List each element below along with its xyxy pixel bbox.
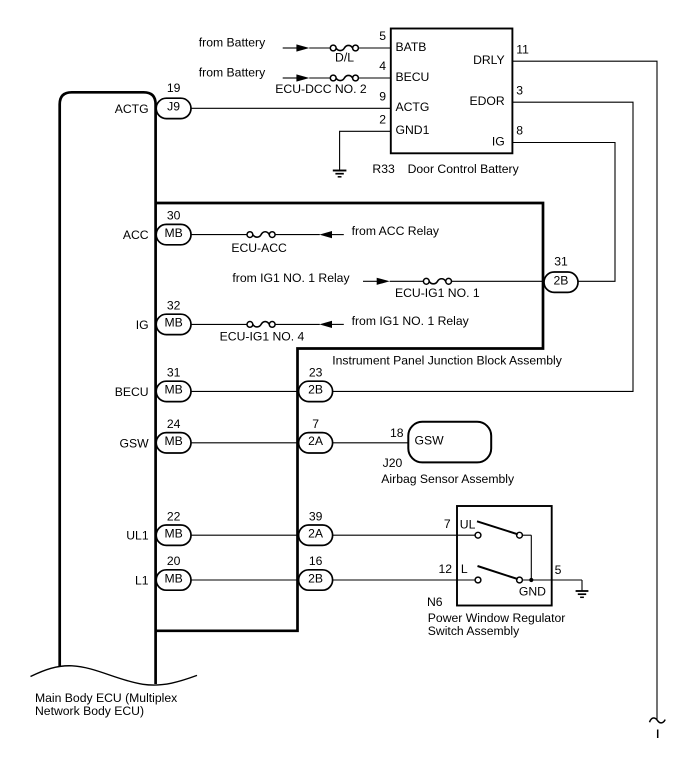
svg-text:from Battery: from Battery bbox=[199, 36, 266, 50]
svg-text:2: 2 bbox=[379, 113, 386, 127]
svg-text:12: 12 bbox=[439, 562, 453, 576]
svg-text:IG: IG bbox=[492, 134, 505, 148]
svg-text:from IG1 NO. 1 Relay: from IG1 NO. 1 Relay bbox=[232, 271, 350, 285]
svg-text:IG: IG bbox=[136, 318, 149, 332]
svg-text:Airbag Sensor Assembly: Airbag Sensor Assembly bbox=[381, 472, 515, 486]
svg-text:L: L bbox=[461, 562, 468, 576]
svg-text:DRLY: DRLY bbox=[473, 53, 505, 67]
svg-text:MB: MB bbox=[164, 316, 182, 330]
svg-text:R33: R33 bbox=[372, 162, 395, 176]
svg-text:ECU-ACC: ECU-ACC bbox=[231, 241, 287, 255]
svg-text:ACTG: ACTG bbox=[115, 102, 149, 116]
svg-text:9: 9 bbox=[379, 90, 386, 104]
svg-text:16: 16 bbox=[309, 554, 323, 568]
svg-text:UL: UL bbox=[460, 518, 476, 532]
svg-text:8: 8 bbox=[516, 124, 523, 138]
svg-text:Instrument Panel Junction Bloc: Instrument Panel Junction Block Assembly bbox=[332, 354, 563, 368]
svg-text:31: 31 bbox=[167, 366, 181, 380]
svg-text:Switch Assembly: Switch Assembly bbox=[428, 624, 520, 638]
svg-text:Main Body ECU (Multiplex: Main Body ECU (Multiplex bbox=[35, 691, 177, 705]
svg-text:from IG1 NO. 1 Relay: from IG1 NO. 1 Relay bbox=[352, 314, 470, 328]
svg-text:3: 3 bbox=[516, 83, 523, 97]
svg-text:Door Control Battery: Door Control Battery bbox=[408, 162, 520, 176]
svg-text:BECU: BECU bbox=[396, 70, 430, 84]
svg-text:UL1: UL1 bbox=[126, 529, 149, 543]
svg-text:32: 32 bbox=[167, 299, 181, 313]
svg-text:39: 39 bbox=[309, 509, 323, 523]
svg-text:EDOR: EDOR bbox=[469, 94, 504, 108]
svg-text:22: 22 bbox=[167, 509, 181, 523]
svg-text:BECU: BECU bbox=[115, 385, 149, 399]
svg-text:from Battery: from Battery bbox=[199, 66, 266, 80]
svg-text:Network Body ECU): Network Body ECU) bbox=[35, 704, 144, 718]
svg-text:5: 5 bbox=[379, 29, 386, 43]
svg-text:GSW: GSW bbox=[415, 434, 445, 448]
svg-text:GND: GND bbox=[519, 584, 546, 598]
svg-text:7: 7 bbox=[444, 517, 451, 531]
svg-text:GND1: GND1 bbox=[396, 123, 430, 137]
svg-text:MB: MB bbox=[164, 527, 182, 541]
svg-text:19: 19 bbox=[167, 81, 181, 95]
svg-text:MB: MB bbox=[164, 383, 182, 397]
svg-text:J9: J9 bbox=[167, 100, 180, 114]
svg-text:7: 7 bbox=[312, 417, 319, 431]
svg-text:20: 20 bbox=[167, 554, 181, 568]
svg-text:11: 11 bbox=[516, 42, 529, 56]
svg-text:ECU-IG1 NO. 1: ECU-IG1 NO. 1 bbox=[395, 286, 480, 300]
svg-text:MB: MB bbox=[164, 571, 182, 585]
svg-text:J20: J20 bbox=[383, 456, 403, 470]
svg-text:N6: N6 bbox=[427, 595, 443, 609]
svg-text:MB: MB bbox=[164, 226, 182, 240]
svg-text:18: 18 bbox=[390, 426, 404, 440]
svg-text:ECU-DCC NO. 2: ECU-DCC NO. 2 bbox=[275, 82, 367, 96]
svg-text:ECU-IG1 NO. 4: ECU-IG1 NO. 4 bbox=[220, 329, 305, 343]
svg-text:2A: 2A bbox=[308, 527, 324, 541]
svg-text:ACC: ACC bbox=[123, 228, 149, 242]
svg-text:from ACC Relay: from ACC Relay bbox=[352, 224, 440, 238]
svg-text:5: 5 bbox=[555, 563, 562, 577]
svg-text:30: 30 bbox=[167, 209, 181, 223]
svg-text:BATB: BATB bbox=[396, 40, 427, 54]
svg-text:31: 31 bbox=[554, 255, 568, 269]
svg-text:4: 4 bbox=[379, 59, 386, 73]
svg-text:2B: 2B bbox=[308, 383, 323, 397]
svg-text:2A: 2A bbox=[308, 434, 324, 448]
svg-text:MB: MB bbox=[164, 434, 182, 448]
svg-text:ACTG: ACTG bbox=[396, 100, 430, 114]
svg-text:2B: 2B bbox=[308, 571, 323, 585]
svg-text:L1: L1 bbox=[135, 574, 149, 588]
svg-text:2B: 2B bbox=[554, 274, 569, 288]
svg-text:D/L: D/L bbox=[335, 51, 354, 65]
svg-text:24: 24 bbox=[167, 417, 181, 431]
svg-text:GSW: GSW bbox=[119, 436, 149, 450]
svg-text:Power Window Regulator: Power Window Regulator bbox=[428, 611, 566, 625]
svg-text:23: 23 bbox=[309, 366, 323, 380]
